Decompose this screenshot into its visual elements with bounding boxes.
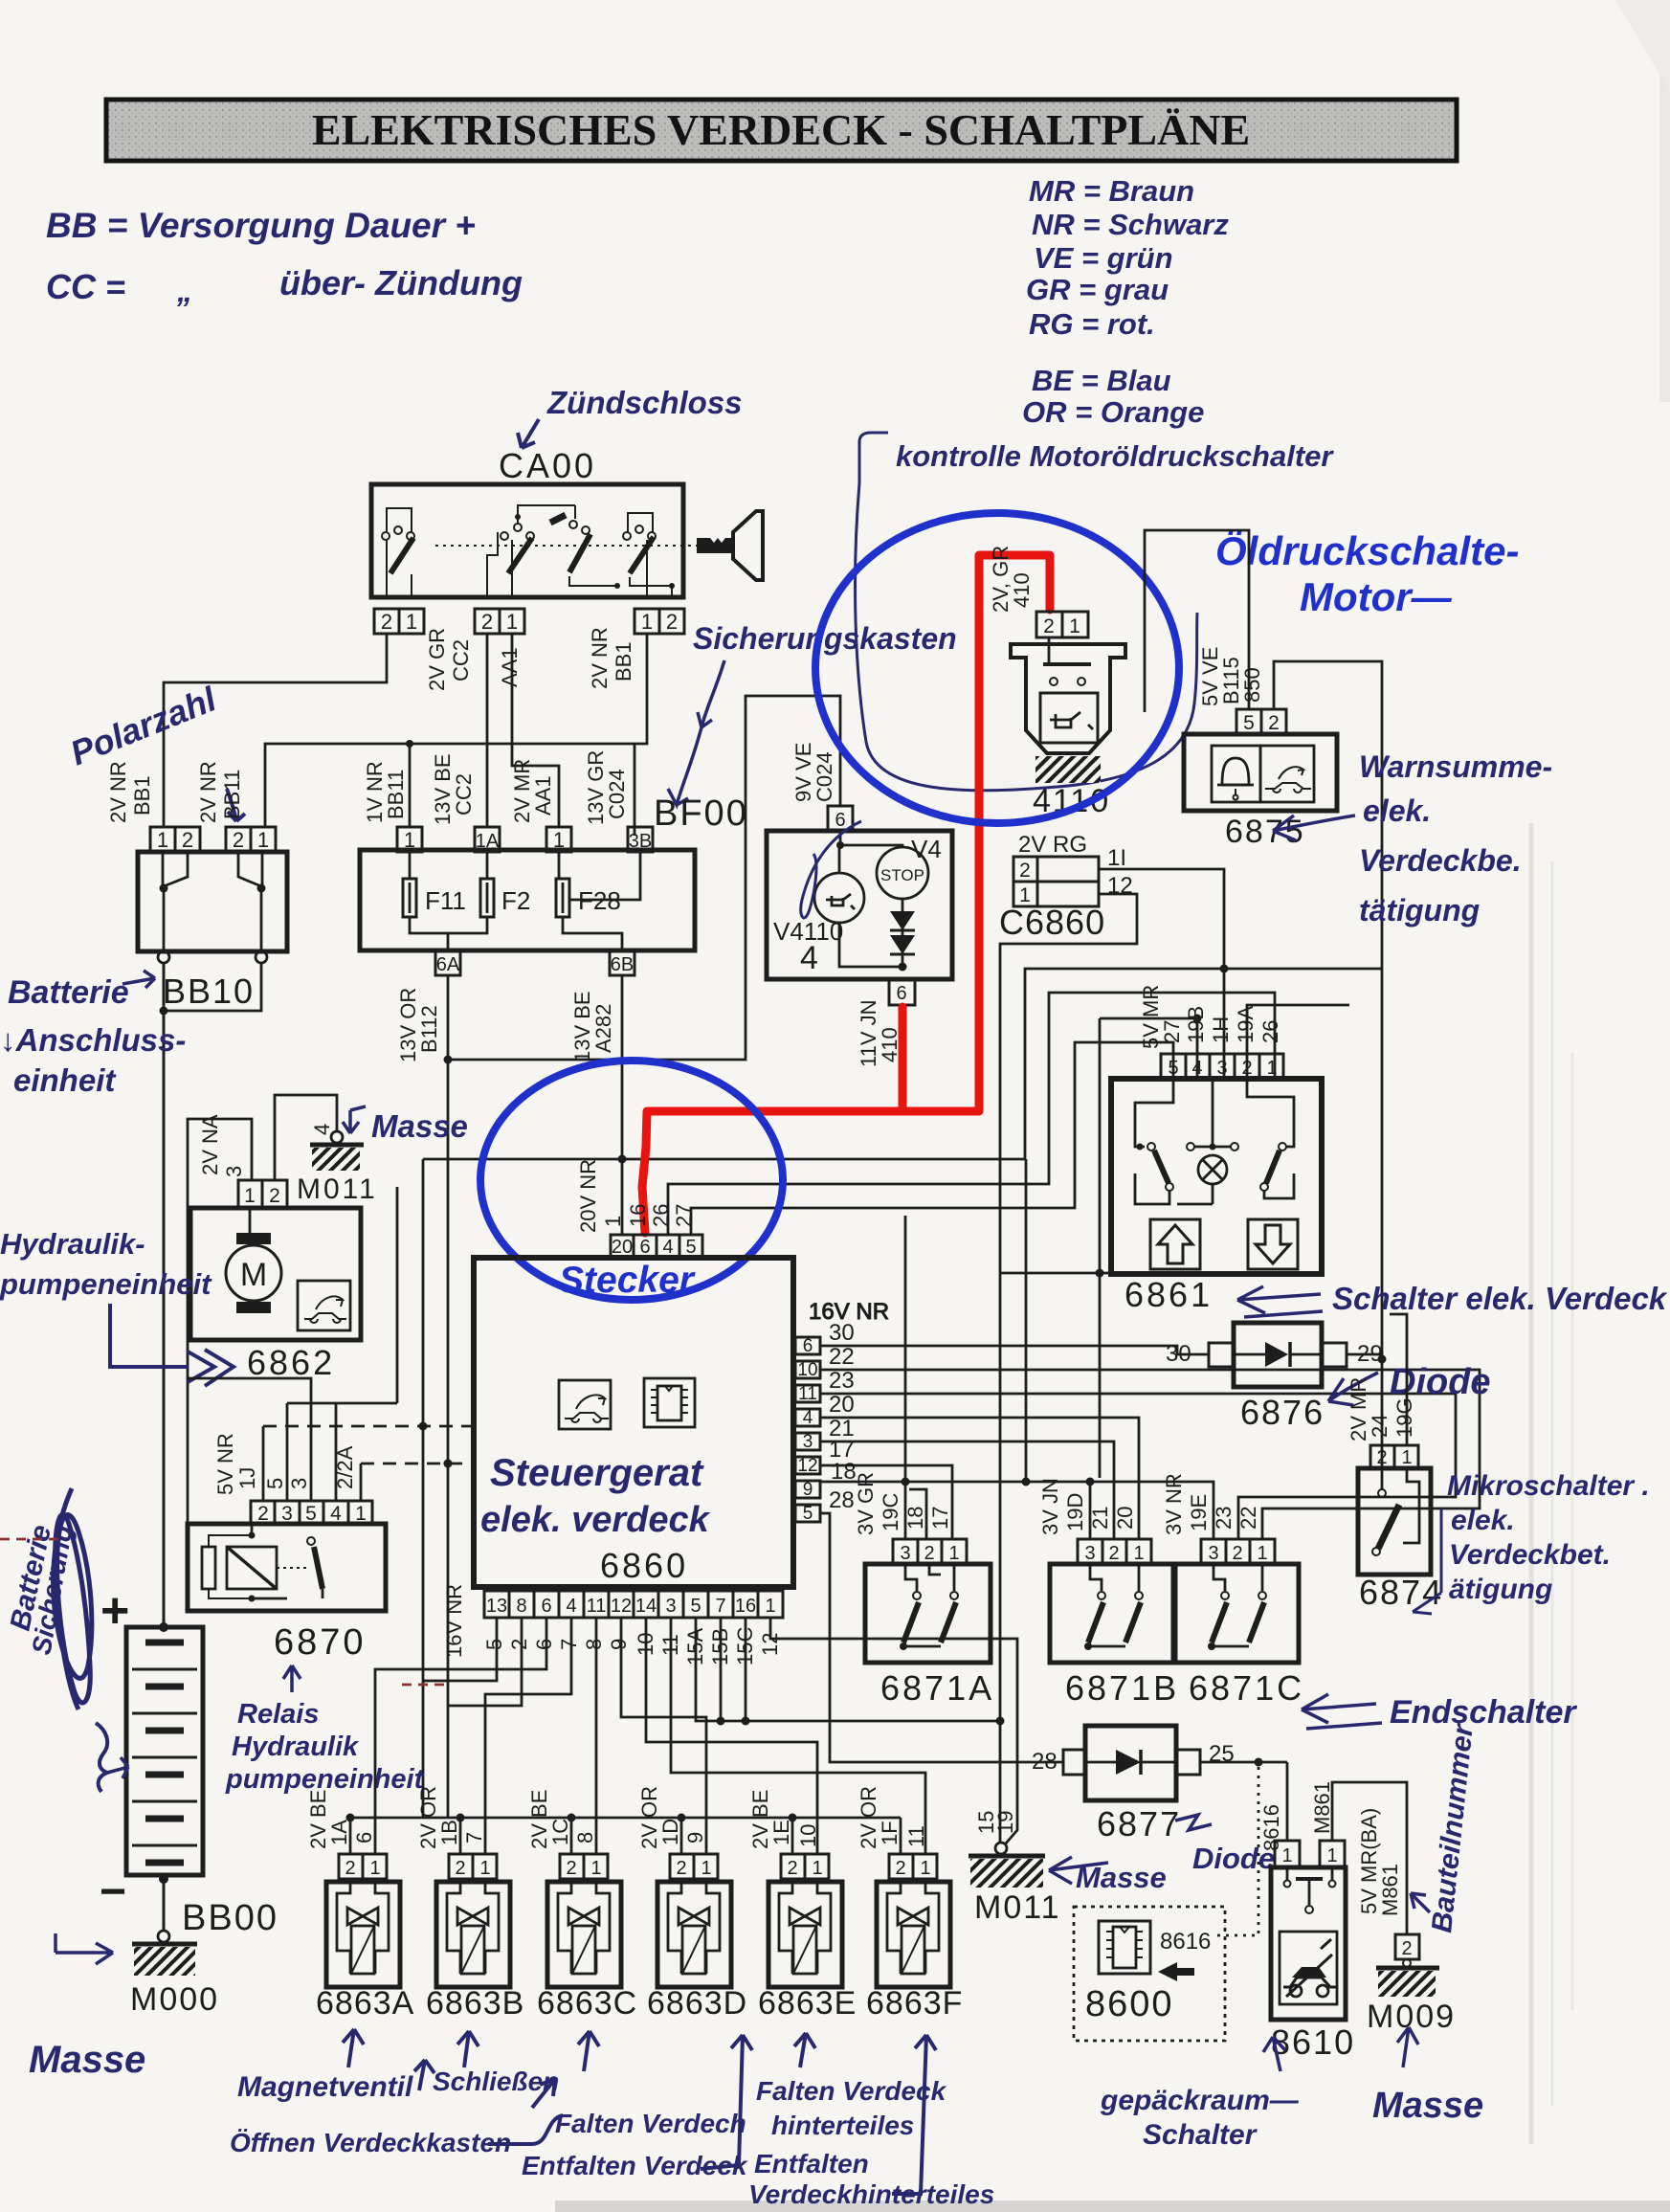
19B net horizontal xyxy=(1100,1017,1197,1020)
switch contact xyxy=(277,1567,308,1569)
annotation Falten Verdeck hinterteiles xyxy=(748,2033,994,2209)
svg-text:Falten Verdech: Falten Verdech xyxy=(555,2109,746,2138)
6862 pin1 loop 2V NA 3 xyxy=(188,1119,252,1524)
svg-text:1: 1 xyxy=(157,828,168,852)
svg-text:1: 1 xyxy=(1069,615,1080,637)
svg-text:8610: 8610 xyxy=(1271,2022,1355,2062)
svg-text:1F: 1F xyxy=(878,1821,902,1845)
svg-text:4: 4 xyxy=(803,1408,813,1428)
svg-text:↓Anschluss-: ↓Anschluss- xyxy=(0,1022,186,1058)
wire 27 riser xyxy=(691,1042,1173,1235)
svg-text:1H: 1H xyxy=(1209,1017,1233,1043)
V4 internal wires xyxy=(840,831,902,847)
net label 2V NR BB1 xyxy=(588,627,635,689)
svg-text:AA1: AA1 xyxy=(498,647,522,687)
marker Oeldruckschalter Motor xyxy=(1215,528,1519,619)
svg-text:8600: 8600 xyxy=(1085,1984,1174,2024)
svg-text:NR = Schwarz: NR = Schwarz xyxy=(1032,208,1229,241)
svg-text:6: 6 xyxy=(541,1596,551,1617)
wire 21 xyxy=(820,1441,1114,1539)
svg-text:Bauteilnummer: Bauteilnummer xyxy=(1426,1721,1480,1934)
roof switch 6861 xyxy=(1000,985,1349,1478)
wire pin14 to 6863E xyxy=(646,1618,817,1854)
svg-text:17: 17 xyxy=(928,1507,952,1530)
limit switch 6871A xyxy=(854,1472,994,1708)
wires 6860 bottom pins to valves xyxy=(375,1618,1017,1854)
svg-text:BE = Blau: BE = Blau xyxy=(1032,364,1171,397)
svg-text:20: 20 xyxy=(829,1392,855,1418)
6862 pin2 loop to ground 4 xyxy=(275,1095,337,1180)
dashed control lines xyxy=(263,1425,474,1428)
svg-text:ELEKTRISCHES VERDECK - SCHALTP: ELEKTRISCHES VERDECK - SCHALTPLÄNE xyxy=(312,105,1250,154)
limit switch 6871B xyxy=(1038,1478,1179,1708)
wire pin3 to 6863F xyxy=(671,1618,925,1854)
svg-text:AA1: AA1 xyxy=(531,775,555,816)
svg-text:einheit: einheit xyxy=(13,1062,117,1098)
car roof icon box xyxy=(298,1281,350,1330)
svg-text:Schalter: Schalter xyxy=(1143,2119,1258,2151)
svg-text:6: 6 xyxy=(532,1639,556,1650)
annotation Falten Verdeck / Entfalten Verdeck xyxy=(522,2031,752,2180)
fuse F11 xyxy=(403,852,466,950)
red wire oil pressure to control unit xyxy=(642,555,1050,1233)
svg-text:410: 410 xyxy=(878,1027,902,1062)
annotation arrow to M000 xyxy=(56,1933,113,1964)
CA00 key symbol xyxy=(697,511,763,580)
svg-text:C6860: C6860 xyxy=(999,903,1105,942)
annotation Masse at M011 xyxy=(1049,1857,1167,1894)
title bar xyxy=(106,100,1457,161)
svg-text:1: 1 xyxy=(1257,1543,1267,1564)
svg-text:1: 1 xyxy=(948,1543,959,1564)
6860 right connector column xyxy=(795,1299,889,1524)
annotation Diode 6877 xyxy=(1175,1815,1275,1875)
battery junction unit BB10 xyxy=(138,852,287,1627)
net label 2V NR BB1 left xyxy=(106,761,244,823)
svg-text:BB = Versorgung Dauer +: BB = Versorgung Dauer + xyxy=(46,206,476,245)
svg-text:4: 4 xyxy=(800,940,818,976)
svg-text:23: 23 xyxy=(829,1368,855,1394)
svg-text:13: 13 xyxy=(486,1596,507,1617)
svg-text:12: 12 xyxy=(611,1596,632,1617)
control module 8600 xyxy=(1074,1907,1225,2041)
CA00 coupling dotted line xyxy=(435,545,697,547)
svg-text:7: 7 xyxy=(715,1596,725,1617)
solenoid valve bus 2V xyxy=(346,1814,902,1855)
motor symbol xyxy=(236,1233,271,1244)
svg-text:1: 1 xyxy=(1326,1845,1337,1866)
svg-text:22: 22 xyxy=(829,1344,855,1370)
V4 bottom connector 6 xyxy=(889,979,915,1005)
svg-text:6: 6 xyxy=(896,983,906,1004)
svg-text:kontrolle Motoröldruckschalter: kontrolle Motoröldruckschalter xyxy=(896,439,1334,473)
page artifacts xyxy=(555,0,1670,2212)
wire 6871A pin2 riser xyxy=(909,1489,926,1539)
svg-text:3: 3 xyxy=(1216,1058,1227,1079)
svg-text:2: 2 xyxy=(924,1543,934,1564)
wire 28 to diode 6877 xyxy=(820,1513,1063,1762)
svg-text:Öffnen Verdeckkasten: Öffnen Verdeckkasten xyxy=(230,2128,511,2157)
svg-text:Motor—: Motor— xyxy=(1300,574,1453,619)
svg-text:1B: 1B xyxy=(437,1820,461,1845)
svg-text:BF00: BF00 xyxy=(654,793,748,834)
svg-text:STOP: STOP xyxy=(880,866,924,884)
svg-text:6863C: 6863C xyxy=(537,1985,637,2022)
wire 18 bus xyxy=(820,1482,1214,1539)
svg-text:4: 4 xyxy=(310,1124,334,1135)
svg-text:1: 1 xyxy=(1281,1845,1292,1866)
svg-text:Polarzahl: Polarzahl xyxy=(65,679,223,772)
6875 wiring xyxy=(1145,530,1249,712)
svg-text:Endschalter: Endschalter xyxy=(1390,1694,1577,1731)
hydraulic pump unit 6862 xyxy=(188,1095,378,1524)
svg-text:VE = grün: VE = grün xyxy=(1034,241,1173,275)
switch symbol xyxy=(1286,1867,1289,1880)
fuse F2 xyxy=(448,852,530,933)
svg-text:19A: 19A xyxy=(1234,1006,1258,1043)
V4 top connector 6 xyxy=(828,806,853,831)
svg-text:19: 19 xyxy=(993,1811,1017,1834)
svg-text:20: 20 xyxy=(1113,1507,1137,1530)
svg-text:CC2: CC2 xyxy=(452,773,476,816)
annotation Mikroschalter xyxy=(1413,1470,1650,1614)
6870 connector row xyxy=(251,1501,372,1524)
svg-text:2V NR: 2V NR xyxy=(588,627,612,689)
connector BB1 1|2 xyxy=(150,827,200,852)
svg-text:tätigung: tätigung xyxy=(1359,893,1480,927)
annotation Masse M009 xyxy=(1372,2027,1483,2126)
wire CA00 pin2-left to BB1 xyxy=(164,634,387,827)
svg-text:1: 1 xyxy=(1401,1447,1412,1468)
svg-text:Masse: Masse xyxy=(1372,2086,1483,2126)
annotation Masse at M011 top xyxy=(343,1106,468,1144)
svg-text:1I: 1I xyxy=(1107,845,1126,871)
annotation Diode 6876 xyxy=(1328,1362,1491,1405)
CA00 switch group 3 xyxy=(550,505,617,586)
svg-text:3B: 3B xyxy=(629,831,652,852)
svg-text:2V RG: 2V RG xyxy=(1018,832,1087,858)
svg-text:elek.: elek. xyxy=(1451,1505,1515,1536)
svg-text:Diode: Diode xyxy=(1390,1362,1491,1402)
wire 6B A282 down xyxy=(618,975,627,1235)
control unit 6860 xyxy=(474,1258,793,1587)
warning buzzer 6875 xyxy=(1145,530,1382,1468)
svg-text:19D: 19D xyxy=(1063,1493,1087,1531)
svg-text:Batterie: Batterie xyxy=(8,974,129,1011)
svg-text:9: 9 xyxy=(607,1639,631,1650)
svg-text:2V NR: 2V NR xyxy=(196,761,220,823)
svg-text:6874: 6874 xyxy=(1359,1573,1443,1612)
svg-text:30: 30 xyxy=(1166,1341,1191,1367)
svg-text:2: 2 xyxy=(1376,1447,1387,1468)
svg-text:9: 9 xyxy=(803,1480,813,1500)
svg-text:1: 1 xyxy=(553,828,565,852)
svg-text:M861: M861 xyxy=(1310,1781,1334,1834)
ground M011 top xyxy=(331,1131,343,1143)
right switch xyxy=(1247,1079,1294,1147)
svg-text:3: 3 xyxy=(1084,1543,1095,1564)
svg-text:1A: 1A xyxy=(476,831,500,852)
magnet valve 6863E xyxy=(748,1790,857,2022)
svg-text:26: 26 xyxy=(1258,1020,1282,1043)
annotation Sicherungskasten with arrow xyxy=(668,621,957,805)
IC icon box xyxy=(644,1378,695,1427)
svg-text:Zündschloss: Zündschloss xyxy=(546,385,743,420)
annotation Batterie + Anschlusseinheit xyxy=(0,971,186,1098)
4110 connector 2|1 xyxy=(1036,612,1062,637)
wire pin8 left xyxy=(448,1618,522,1706)
svg-text:11: 11 xyxy=(798,1384,817,1404)
blue scribble Batterie xyxy=(5,1488,128,1792)
svg-text:Masse: Masse xyxy=(29,2039,145,2081)
annotation Bauteilnummer xyxy=(1411,1721,1480,1934)
svg-text:BB00: BB00 xyxy=(182,1898,278,1938)
svg-text:2: 2 xyxy=(1043,615,1055,637)
V4 stop lamp xyxy=(877,847,928,899)
Polarzahl annotation xyxy=(65,679,245,821)
svg-text:19B: 19B xyxy=(1184,1006,1208,1043)
roof icon box xyxy=(559,1380,611,1429)
svg-text:CC =: CC = xyxy=(46,267,125,306)
svg-text:20V NR: 20V NR xyxy=(576,1159,600,1233)
svg-text:über- Zündung: über- Zündung xyxy=(279,263,523,302)
svg-text:Verdeckbe.: Verdeckbe. xyxy=(1359,843,1522,878)
ignition switch CA00 xyxy=(371,446,763,597)
battery BB00 xyxy=(100,1583,278,2018)
svg-text:6863F: 6863F xyxy=(866,1985,963,2022)
svg-text:9: 9 xyxy=(683,1832,707,1843)
oil pressure switch 4110 xyxy=(989,546,1125,819)
svg-text:Entfalten Verdeck: Entfalten Verdeck xyxy=(522,2151,748,2180)
CA00 switch group 4 xyxy=(614,513,675,597)
svg-text:1: 1 xyxy=(765,1596,775,1617)
svg-text:A282: A282 xyxy=(591,1004,615,1053)
svg-text:Verdeckhinterteiles: Verdeckhinterteiles xyxy=(748,2179,994,2209)
svg-text:24: 24 xyxy=(1368,1415,1392,1438)
handwritten legend top-left xyxy=(46,206,523,308)
svg-text:Magnetventil: Magnetventil xyxy=(237,2071,413,2103)
svg-text:Hydraulik-: Hydraulik- xyxy=(0,1227,145,1261)
wires from 6860 right pins xyxy=(820,1159,1480,1762)
svg-text:1C: 1C xyxy=(548,1819,572,1845)
svg-text:19E: 19E xyxy=(1187,1494,1211,1531)
svg-text:16: 16 xyxy=(735,1596,756,1617)
svg-text:M861: M861 xyxy=(1378,1864,1402,1916)
svg-text:14: 14 xyxy=(635,1596,657,1617)
wire pin6 to 6863A xyxy=(375,1618,546,1854)
svg-text:BB1: BB1 xyxy=(130,775,154,816)
svg-text:6: 6 xyxy=(835,810,845,831)
19A riser pin2 xyxy=(1247,1005,1349,1079)
magnet valve 6863C xyxy=(527,1790,637,2022)
annotation Schalter elek Verdeck xyxy=(1237,1281,1668,1317)
svg-text:3: 3 xyxy=(222,1166,246,1177)
svg-text:C024: C024 xyxy=(813,751,836,802)
svg-text:10: 10 xyxy=(797,1360,817,1380)
svg-text:6: 6 xyxy=(639,1237,650,1258)
net bus A282 horizontal xyxy=(423,969,1382,1818)
svg-text:V4: V4 xyxy=(911,835,942,863)
svg-text:6863E: 6863E xyxy=(758,1985,857,2022)
svg-text:2: 2 xyxy=(182,828,193,852)
svg-text:6877: 6877 xyxy=(1097,1804,1181,1843)
wire 20 xyxy=(820,1418,1139,1539)
wire CA00 right pair to BB11/3B bus xyxy=(265,634,647,827)
svg-text:1D: 1D xyxy=(658,1819,682,1845)
svg-text:28: 28 xyxy=(829,1487,855,1513)
svg-text:pumpeneinheit: pumpeneinheit xyxy=(0,1267,212,1301)
fuse box bottom connectors 6A 6B xyxy=(435,950,635,975)
left switch xyxy=(1135,1079,1173,1147)
Stecker connector of 6860 xyxy=(576,993,1275,1258)
wire 6A B112 down xyxy=(444,696,841,1818)
svg-text:Mikroschalter .: Mikroschalter . xyxy=(1447,1470,1650,1502)
scan artifact dashes xyxy=(0,1538,63,1541)
svg-text:30: 30 xyxy=(829,1320,855,1346)
6862 connector 1|2 xyxy=(238,1180,262,1208)
svg-text:8: 8 xyxy=(573,1832,597,1843)
blue circle around 4110 xyxy=(815,513,1179,823)
svg-text:8: 8 xyxy=(516,1596,526,1617)
svg-text:3V NR: 3V NR xyxy=(1162,1473,1186,1535)
microswitch 6874 xyxy=(1347,1314,1443,1612)
svg-text:2: 2 xyxy=(269,1185,280,1207)
wire A282 drop xyxy=(1025,1159,1028,1482)
wire AA1 to fuse 1 xyxy=(512,634,559,827)
annotation Endschalter xyxy=(1302,1694,1577,1731)
svg-text:Relais: Relais xyxy=(237,1699,319,1730)
6861 connector row 5..1 xyxy=(1161,1054,1283,1079)
annotation gepaeckraum Schalter xyxy=(1100,2037,1300,2151)
CA00 connector 2|1 left xyxy=(374,609,424,634)
svg-text:Masse: Masse xyxy=(1076,1861,1167,1894)
relay 6870 xyxy=(188,1187,474,1663)
CA00 connector 1|2 right xyxy=(635,609,684,634)
wire 30 to diode 6876 xyxy=(820,1346,1209,1354)
6870 wire from 6862 down xyxy=(188,1378,311,1501)
svg-text:18: 18 xyxy=(903,1507,927,1530)
svg-text:1: 1 xyxy=(506,610,518,634)
wire pin11 to 6863C xyxy=(595,1618,598,1854)
wire pin4 to 6863B xyxy=(485,1618,571,1854)
arrow up icon xyxy=(1150,1219,1200,1269)
centre lamp xyxy=(1187,1143,1194,1151)
svg-text:3: 3 xyxy=(665,1596,676,1617)
wire pin1 to ground 19 xyxy=(770,1618,1017,1844)
wire 12 xyxy=(1000,894,1137,1843)
wire 19C riser xyxy=(904,1216,907,1539)
svg-text:Öldruckschalte-: Öldruckschalte- xyxy=(1215,528,1519,573)
svg-text:1: 1 xyxy=(244,1185,256,1207)
connector BB11 2|1 xyxy=(226,827,276,852)
svg-text:6876: 6876 xyxy=(1240,1393,1325,1432)
svg-text:1: 1 xyxy=(257,828,269,852)
svg-text:19G: 19G xyxy=(1392,1397,1416,1438)
svg-text:7: 7 xyxy=(462,1832,486,1843)
svg-text:20: 20 xyxy=(612,1237,633,1258)
svg-text:6: 6 xyxy=(803,1336,813,1356)
svg-text:1: 1 xyxy=(601,1216,625,1227)
ground M000 xyxy=(158,1931,169,1942)
svg-text:elek.: elek. xyxy=(1363,793,1431,828)
svg-text:2: 2 xyxy=(1108,1543,1119,1564)
svg-text:gepäckraum—: gepäckraum— xyxy=(1100,2085,1300,2116)
V4 diodes xyxy=(890,911,915,930)
magnet valve 6863D xyxy=(637,1786,747,2022)
svg-text:2: 2 xyxy=(666,610,678,634)
svg-text:3: 3 xyxy=(900,1543,910,1564)
svg-text:1: 1 xyxy=(1133,1543,1144,1564)
svg-text:21: 21 xyxy=(1088,1507,1112,1530)
4110 hatch ground xyxy=(1035,756,1101,783)
svg-text:2: 2 xyxy=(1019,860,1031,882)
svg-text:4: 4 xyxy=(566,1596,576,1617)
svg-text:3V JN: 3V JN xyxy=(1038,1478,1062,1535)
svg-text:16V NR: 16V NR xyxy=(442,1584,466,1658)
svg-text:6871B: 6871B xyxy=(1065,1668,1179,1708)
svg-text:3V GR: 3V GR xyxy=(854,1472,878,1535)
diode 6877 xyxy=(1032,1726,1287,1843)
svg-text:1: 1 xyxy=(404,828,415,852)
svg-text:27: 27 xyxy=(1160,1020,1184,1043)
svg-text:19C: 19C xyxy=(879,1493,902,1531)
wire horizontal to V4 riser xyxy=(448,696,840,1060)
svg-text:5: 5 xyxy=(263,1478,287,1489)
svg-text:1J: 1J xyxy=(235,1467,259,1489)
4110 body xyxy=(1011,644,1125,753)
svg-text:6871C: 6871C xyxy=(1189,1668,1304,1708)
svg-text:8616: 8616 xyxy=(1259,1804,1283,1851)
wire branch to fuse 1 xyxy=(409,744,412,827)
net label 2V GR CC2 xyxy=(425,628,522,691)
svg-text:CA00: CA00 xyxy=(499,446,596,485)
car icon xyxy=(1280,1932,1337,2004)
svg-text:M011: M011 xyxy=(297,1173,378,1205)
svg-text:2: 2 xyxy=(381,610,392,634)
svg-text:1: 1 xyxy=(1266,1058,1277,1079)
wire CC2 down to 1A xyxy=(486,634,489,827)
6861 box xyxy=(1111,1079,1322,1274)
wire 22 xyxy=(820,1370,1480,1539)
annotation Warnsummer xyxy=(1273,749,1552,927)
wire 23 xyxy=(820,1394,1456,1539)
boot switch 8610 xyxy=(1271,1781,1355,2062)
fuse box top connectors xyxy=(397,827,653,852)
wires 15A 15B 15C merge xyxy=(696,1618,1000,1721)
svg-text:4: 4 xyxy=(662,1237,673,1258)
fuse F28 xyxy=(556,852,640,950)
svg-text:1: 1 xyxy=(406,610,417,634)
dotted wire 8616 xyxy=(1214,1767,1258,1935)
svg-text:6: 6 xyxy=(352,1832,376,1843)
car roof icon xyxy=(1265,767,1311,793)
ground M009 xyxy=(1332,1782,1456,2035)
svg-text:410: 410 xyxy=(1010,572,1034,608)
svg-text:M000: M000 xyxy=(130,1981,219,2018)
svg-text:6863A: 6863A xyxy=(316,1985,414,2022)
svg-text:1A: 1A xyxy=(327,1820,351,1845)
magnet valve 6863A xyxy=(306,1790,414,2022)
annotation Magnetventil group xyxy=(230,2029,563,2157)
svg-text:2: 2 xyxy=(481,610,493,634)
svg-text:3: 3 xyxy=(287,1478,311,1489)
6862 box xyxy=(190,1208,361,1340)
svg-text:Hydraulik: Hydraulik xyxy=(232,1732,360,1762)
svg-text:CC2: CC2 xyxy=(449,639,473,681)
svg-text:hinterteiles: hinterteiles xyxy=(771,2111,914,2140)
6860 bottom connector row xyxy=(442,1584,783,1665)
svg-text:8: 8 xyxy=(582,1639,606,1650)
